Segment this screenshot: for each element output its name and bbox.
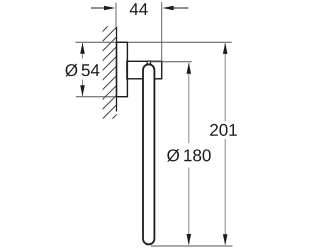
dimension O54: label [65,64,77,77]
escutcheon plate (side view) [117,42,128,96]
extension line 44 left (vertical above wall) [115,3,117,28]
dimension 201: line upper segment [224,43,226,121]
dimension O180: line lower segment [188,168,190,245]
dimension 44: right tail line [174,7,189,9]
extension line plate bottom left [76,96,117,98]
dimension 44: label [130,3,148,15]
dimension 44: left arrowhead [104,6,115,11]
dimension 201: up arrowhead [223,43,228,54]
dimension O54: up arrowhead [80,43,85,54]
pivot nub on ring top [147,61,150,67]
extension line top (plate top, to 201 dim) [76,41,232,43]
extension line ring top (to 180 dim) [151,61,192,63]
dimension 201: line lower segment [224,139,226,245]
dimension 201: label [210,124,237,136]
wall hatching [99,17,117,142]
dimension O180: down arrowhead [187,234,192,245]
dimension O180: up arrowhead [187,63,192,74]
extension line 44 right / above body [161,2,163,61]
dimension O54: line upper segment [82,43,84,59]
extension line ring bottom (to 180/201 dims) [151,245,233,247]
dimension O54: line lower segment [82,80,84,97]
dimension 44: left tail line [91,7,105,9]
dimension O180: line upper segment [188,63,190,143]
dimension O54: down arrowhead [80,85,85,96]
dimension O180: label [167,149,179,162]
dimension 201: down arrowhead [223,234,228,245]
towel ring arm (side view, stadium shape) [143,64,154,244]
dimension 44: right arrowhead [162,6,173,11]
wall face line [116,27,118,112]
holder body (side view) [127,61,162,79]
